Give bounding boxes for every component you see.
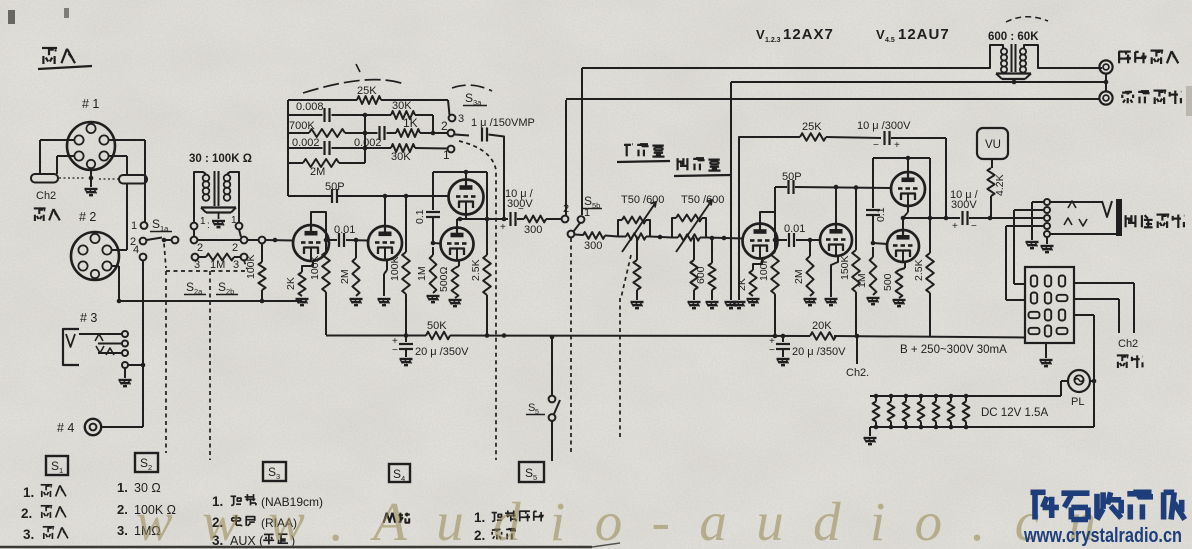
label 4.2K [994,174,1006,196]
svg-text:1M: 1M [416,266,428,281]
tube V8 [887,230,919,262]
wire row to S2a [166,239,172,241]
svg-text:2.: 2. [117,502,128,517]
legend S3 item1 [212,494,323,509]
tube V2 [368,226,402,260]
legend S2 item1 [117,480,161,495]
legend S1 item1 [23,485,66,500]
resistor 2.5K st1 [483,219,491,335]
wire DIN1 center pin ground lead [89,168,94,187]
resistor shunt pad2 [690,238,697,301]
svg-text:1: 1 [443,148,450,162]
wire V8 grid [873,243,888,244]
svg-text:4.2K: 4.2K [994,174,1006,196]
switch S5b contact1 [578,216,585,223]
svg-text:500: 500 [882,273,894,291]
svg-text:2M: 2M [310,166,325,178]
resistor 1K [396,129,420,137]
svg-text:S: S [140,456,148,470]
ground 2K st2 [747,299,760,305]
wire V3 plate rail [433,170,487,175]
wire EQ row2 right [415,115,435,135]
label S2 pos3 left [194,259,200,271]
svg-text:S: S [525,466,533,480]
linkage dash to legend S2 [165,271,167,453]
resistor 2.5K st2 [926,218,934,336]
wire V3 plate lead [465,172,467,180]
label S1a pos1 [131,220,137,232]
capacitor 0.002 lower [325,141,330,155]
resistor 50K [426,332,450,340]
wire V1 cathode [302,261,313,272]
linkage dashes S1-S2 [164,244,247,272]
wire S2b [199,256,207,258]
resistor 25K NFB [800,133,826,141]
aux chevrons [1064,201,1087,226]
wire V7 plate lead [906,156,911,172]
svg-text:20K: 20K [812,320,832,332]
label 0.002 mid [354,137,382,149]
label out ch2 [1117,355,1143,368]
wire V3 cathode to V4 plate [457,215,466,228]
wire VU down [991,159,993,168]
svg-text:5: 5 [533,473,537,482]
label 30:100K [189,153,252,165]
attenuator T50/600 main [618,202,656,252]
label DC12V [981,407,1048,419]
wire 50P row st2 [795,185,891,190]
svg-text:4: 4 [401,474,405,483]
svg-text:S: S [218,280,226,294]
legend box S2 [135,453,158,472]
switch S1a contact1 [141,222,148,229]
svg-text:2K: 2K [285,277,297,290]
wire V8 cathode [899,262,905,270]
label S2b [216,280,238,296]
tube V4 [441,228,474,261]
svg-text:50P: 50P [782,171,802,183]
wire EQ row5 right [339,162,365,164]
label 600 [695,266,707,284]
svg-text:−: − [518,204,524,215]
wire EQ row5 a [288,162,303,164]
label 30K upper [392,100,412,112]
ground 2M st2 [804,299,817,305]
switch S5a bottom [549,414,556,421]
svg-text:0.1: 0.1 [414,209,426,224]
svg-text:1: 1 [200,216,206,227]
switch S3a lever [455,135,469,136]
label main-volume [617,144,670,162]
svg-text:2: 2 [232,242,238,254]
label #2 [79,210,96,224]
label 30K lower [391,151,411,163]
switch S5a top [549,396,556,403]
label B+ value [900,344,1007,356]
wire DIN1 lower-right pin [109,156,128,174]
label input ch2 [34,208,60,221]
switch S3a contact1 [443,146,454,162]
switch S5b contact2 [562,216,569,223]
wire aux c4 [1006,226,1044,300]
wire 0.01 to V2 grid [346,239,368,242]
ground 20u st1 [400,359,413,365]
transformer 600:60K [975,17,1102,82]
capacitor 50P st1 [332,189,337,203]
svg-text:Ch2: Ch2 [36,190,56,202]
wire NFB riser [739,137,758,300]
label sub-volume [674,158,731,176]
wire xfmr left to row [193,230,195,237]
svg-text:30K: 30K [392,100,412,112]
label 0.01 st1 [334,224,355,236]
wire PL left [1061,381,1068,396]
label 100K input [245,254,257,279]
wire 0.1 st2 lower [871,215,876,245]
svg-text:50K: 50K [427,320,447,332]
wire EQ row1 right [381,100,450,115]
svg-text:2M: 2M [339,269,351,284]
label 20u/350V st2 [792,346,846,358]
label Ch2 [36,190,56,202]
label S5b pos2 [563,203,569,215]
connector DIN #2 [71,232,119,280]
svg-text:−: − [769,345,775,356]
svg-text:S: S [584,194,592,208]
wire 300 to pad1 [605,236,618,237]
resistor 2M (EQ) [303,159,339,167]
jack3 chevrons [95,334,114,355]
label S5b [582,194,602,210]
label 50P st1 [325,181,345,193]
tube V7 [891,172,925,206]
legend S4 text [384,513,410,523]
wire aux gnd lead [1046,237,1048,244]
svg-text:600 : 60K: 600 : 60K [988,31,1039,43]
svg-text:0.1: 0.1 [875,207,887,222]
svg-text:2.5K: 2.5K [470,259,482,281]
svg-text:V: V [876,27,885,42]
svg-text:1.2.3: 1.2.3 [765,37,781,44]
label S3a [463,91,487,107]
resistor 100K V5 load [771,240,779,336]
svg-text:12AX7: 12AX7 [783,26,834,43]
wire EQ row1 [288,99,357,101]
wire S3a cap out [489,135,507,222]
wire rowC [248,239,259,241]
label 0.008 [296,101,324,113]
watermark audio-audio [136,491,1096,549]
linkage dash S3a [459,141,496,460]
resistor 4.2K [987,168,994,196]
label 0.1 st2 [875,207,887,222]
wire cap to corner [891,137,946,139]
wire jack3 c4 [128,364,143,366]
label S5a [526,402,545,416]
svg-text:30K: 30K [391,151,411,163]
legend S3 item2 [212,515,297,530]
label 20u/350V st1 [415,346,469,358]
wire output row st2 [901,216,960,221]
ground DIN1 shield [85,189,98,195]
svg-text:S: S [152,217,160,231]
cap20 polarity st2 [769,336,775,356]
label 0.01 st2 [784,223,805,235]
ground NFB riser [733,302,746,308]
svg-text:# 1: # 1 [82,97,99,111]
jack #3 contacts [122,331,128,368]
jack aux body [1116,199,1122,236]
label S2 pos2 right [232,242,238,254]
connector #4 RCA [85,419,101,435]
ground of rail x731 [725,302,738,308]
svg-text:1M: 1M [210,259,225,271]
cap polarity out [952,221,977,232]
legend box S5 [519,462,544,482]
wire Ch2 stub [855,334,860,364]
resistor 20K [810,332,836,340]
wire V1 plate [311,212,337,242]
label 100K V5 [758,256,770,281]
svg-text:2: 2 [130,236,136,248]
svg-text:4.5: 4.5 [885,37,895,44]
switch S5a lever [554,400,560,414]
resistor shunt pad1 [633,237,640,301]
legend S2 item3 [117,523,161,538]
label 1M st1 [416,266,428,281]
wire stack2 right [928,158,933,220]
wire V6 plate [834,185,839,224]
resistor 300 wiper [583,232,605,239]
svg-text:12AU7: 12AU7 [898,26,950,43]
svg-text:300V: 300V [951,199,977,211]
ground connector [1040,360,1053,366]
resistor 500ohm st1 [452,268,459,298]
tube V1 [293,225,329,261]
switch S3a contact3 [449,113,465,125]
svg-text:3: 3 [276,472,280,481]
wire S2b right [234,256,241,258]
svg-text:20 μ /350V: 20 μ /350V [792,346,846,358]
svg-text:0.01: 0.01 [784,223,805,235]
resistor 30K lower [391,144,415,152]
svg-text:# 4: # 4 [57,421,74,435]
svg-text:+: + [952,221,958,232]
label 0.002 lower [292,137,320,149]
label 10u/300V out [950,189,979,211]
wire PL right [1090,379,1096,384]
legend box S1 [46,456,68,475]
wire DIN1 lower-left pin [57,156,75,174]
svg-text:1M: 1M [856,273,868,288]
label 700K [289,120,315,132]
wire wiper out [575,234,584,237]
svg-text:30 : 100K Ω: 30 : 100K Ω [189,153,252,165]
svg-text:2: 2 [563,203,569,215]
capacitor 0.1 st1 [426,212,440,217]
wire jack3 c3 [98,352,122,354]
resistor 700K [309,129,345,137]
label input heading [38,48,92,69]
wire DIN2 to node [112,266,122,303]
svg-text:1.: 1. [23,485,34,500]
svg-text:10 μ /300V: 10 μ /300V [857,120,911,132]
resistor 25K (EQ) [357,96,381,104]
ground jack3 [119,380,132,386]
wire stack right [485,172,490,221]
switch S1a lever [147,238,163,241]
wire EQ row3 a [288,132,309,134]
resistor 2K st2 [749,270,756,296]
wire block row2 to Ch2b [1074,299,1119,333]
capacitor 10u out [963,211,968,225]
label S2 pos3 right [233,259,239,271]
legend S1 item3 [23,527,68,542]
wire row to V1 grid [266,238,294,243]
svg-text:2: 2 [148,463,152,472]
label 1M st2 [856,273,868,288]
ground aux left [1026,242,1039,248]
wire #4 to riser [102,426,144,428]
svg-text:PL: PL [1071,396,1084,408]
wire bottom input bus [119,299,302,304]
cable lug left [31,174,84,183]
switch S5b lever [574,223,581,232]
label 10u/300V top [857,120,911,132]
switch contact 4 [140,254,147,261]
label T50/600 no2 [681,194,724,206]
wire V6 cathode [831,256,838,270]
wire 4.2K down [990,196,992,218]
legend S3 item3 [212,533,295,548]
resistor 1M st1 [430,247,437,293]
resistor 2K st1 [298,272,305,296]
wire cap to res [517,218,524,220]
label 500ohm [438,266,450,292]
resistor 1M st2 [870,247,877,295]
lamp PL [1068,370,1090,392]
legend box S3 [263,462,286,481]
svg-text::: : [207,220,210,231]
svg-text:S: S [393,467,401,481]
node B+ c [773,334,786,339]
wire jack3 c2 [98,343,122,345]
svg-text:1.: 1. [117,480,128,495]
ground V6 cathode [825,299,838,305]
svg-text:1: 1 [584,207,590,219]
switch S3a contact2 [441,119,454,136]
ground 500 st2 [893,300,906,306]
wire jack3 ground lead [124,368,126,378]
wire monitor rail top [582,68,990,215]
resistor 1M (S2) [206,254,234,261]
jack aux tip mark [1102,201,1112,217]
svg-text:−: − [873,140,879,151]
tube V3 [449,180,484,215]
svg-text:S: S [51,459,59,473]
terminal xfmr left [191,216,206,229]
wire record-out rail [566,99,1099,215]
legend S5 item2 [474,528,516,543]
svg-text:3: 3 [233,259,239,271]
wire EQ mid bus [363,115,368,163]
svg-text:# 2: # 2 [79,210,96,224]
wire EQ row3 c [387,132,397,134]
label S2 pos2 left [197,242,203,254]
switch S2b contact1 [192,254,199,261]
connector block pins [1029,276,1068,337]
wire S5a upper [550,335,555,396]
wire 0.1 st2 upper [872,158,874,208]
capacitor 10u st1 [511,212,516,226]
svg-text:3.: 3. [117,523,128,538]
watermark crystalradio url [1023,525,1182,547]
wire jacks link [1105,74,1107,92]
svg-text:100K: 100K [245,254,257,279]
aux contacts [1044,199,1050,237]
wire out to aux [969,216,1044,221]
ground 1M st1 [427,296,440,302]
wire NFB to cap [826,137,881,138]
svg-text:+: + [500,222,506,233]
label 20K [812,320,832,332]
wire EQ left bus [287,100,289,196]
label 1u/150VMP [471,117,535,129]
svg-text:2K: 2K [736,278,748,291]
svg-text:50P: 50P [325,181,345,193]
ground shunt pad1 [631,302,644,308]
jack monitor-input [1099,60,1112,73]
wire V4 grid [433,242,441,245]
label 2.5K st2 [913,259,925,281]
ground transformer CT [212,221,225,227]
label 0.1 st1 [414,209,426,224]
label #1 [82,97,99,111]
svg-text:25K: 25K [802,121,822,133]
resistor 600 [708,238,715,300]
wire pad1 to pad2 [650,235,672,240]
wire 0.1 upper stem [432,172,434,210]
svg-text:B + 250~300V 30mA: B + 250~300V 30mA [900,344,1007,356]
label 50K [427,320,447,332]
capacitor 0.1 st2 [866,210,880,215]
meter VU [977,128,1008,159]
ground 500 st1 [449,300,462,306]
ground 2M st1 [350,299,363,305]
resistor 30K upper [391,111,415,119]
wire EQ row4 a [288,147,323,149]
label Ch2 stub [846,367,869,379]
capacitor 10u top [885,131,890,145]
scan specks top-left [8,8,1192,116]
ground 20u st2 [777,359,790,365]
wire 50P to V3 grid [338,194,448,199]
label 10u/300V st1 [505,188,534,210]
svg-text:20 μ /350V: 20 μ /350V [415,346,469,358]
wire NFB rail [758,136,800,138]
label 2M st2 [793,269,805,284]
label 2M st1 [339,269,351,284]
legend S2 item2 [117,502,176,517]
switch S2a contact C [241,237,248,244]
svg-text:3.: 3. [23,527,34,542]
linkage dash S5b [570,238,572,454]
ground V2 cathode [378,299,391,305]
switch S2a contact D [259,237,266,244]
resistor 100K V2 load [402,196,410,335]
wire block row3 to PL riser [1074,315,1094,427]
svg-text:1K: 1K [403,116,418,130]
